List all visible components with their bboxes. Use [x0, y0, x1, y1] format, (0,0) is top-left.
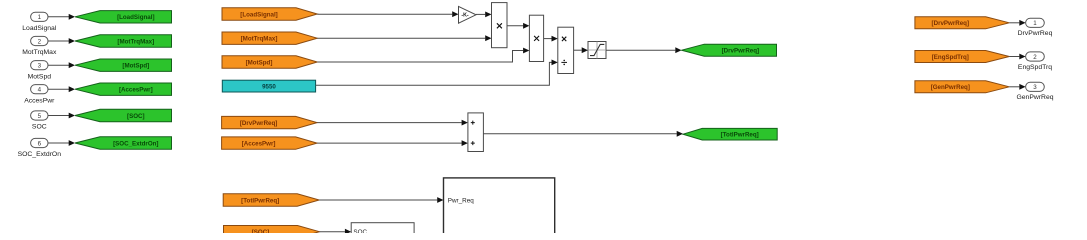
from [EngSpdTrq] right: [915, 51, 1009, 63]
svg-text:[MotTrqMax]: [MotTrqMax]: [117, 38, 154, 45]
from [DrvPwrReq] right: [915, 17, 1009, 29]
from [MotSpd]: [222, 56, 317, 68]
inport 4 AccesPwr: [24, 85, 55, 105]
svg-text:[LoadSignal]: [LoadSignal]: [240, 11, 277, 18]
wire to outport 2: [1009, 54, 1025, 60]
svg-text:3: 3: [1033, 84, 1037, 91]
wire [TotlPwrReq] to subsystem Pwr_Req: [319, 197, 443, 203]
svg-text:1: 1: [38, 14, 42, 21]
svg-text:[SOC_ExtdrOn]: [SOC_ExtdrOn]: [113, 140, 158, 147]
SOC lookup block: [351, 223, 414, 240]
from [LoadSignal]: [222, 8, 317, 20]
svg-text:MotTrqMax: MotTrqMax: [22, 49, 57, 56]
svg-text:SOC: SOC: [32, 124, 47, 131]
wire divide to saturation: [574, 47, 588, 53]
svg-text:5: 5: [38, 113, 42, 120]
inport 3 MotSpd: [28, 61, 52, 81]
svg-text:6: 6: [38, 140, 42, 147]
wire [MotTrqMax] to product P1: [317, 35, 491, 41]
outport 2 EngSpdTrq: [1018, 52, 1052, 71]
svg-text:1: 1: [1033, 20, 1037, 27]
goto [SOC_ExtdrOn]: [75, 137, 172, 149]
from [DrvPwrReq]: [222, 116, 318, 128]
goto [DrvPwrReq]: [682, 44, 777, 56]
wire to outport 1: [1009, 20, 1025, 26]
wire inport 2 to goto: [48, 38, 75, 44]
svg-text:[TotlPwrReq]: [TotlPwrReq]: [241, 197, 279, 204]
wire [MotSpd] to product P2: [317, 48, 529, 62]
wire [AccesPwr] to sum: [317, 140, 468, 146]
from [MotTrqMax]: [222, 32, 317, 44]
divide block: [558, 27, 574, 73]
wire product P2 to divide: [544, 36, 558, 42]
wire inport 1 to goto: [48, 14, 75, 20]
outport 3 GenPwrReq: [1016, 82, 1053, 101]
wire [LoadSignal] to gain K: [317, 11, 458, 17]
wire constant 9550 to divide: [316, 60, 558, 86]
from [AccesPwr]: [222, 137, 318, 149]
goto [AccesPwr]: [75, 83, 172, 95]
goto [MotTrqMax]: [75, 35, 172, 47]
from [GenPwrReq] right: [915, 81, 1009, 93]
svg-text:4: 4: [38, 87, 42, 94]
outport 1 DrvPwrReq: [1018, 18, 1053, 37]
goto [TotlPwrReq]: [683, 128, 777, 140]
svg-text:-K-: -K-: [461, 13, 469, 19]
svg-text:[MotTrqMax]: [MotTrqMax]: [241, 36, 278, 43]
svg-text:2: 2: [38, 38, 42, 45]
svg-text:EngSpdTrq: EngSpdTrq: [1018, 64, 1052, 71]
goto [SOC]: [75, 109, 172, 121]
wire to outport 3: [1009, 84, 1025, 90]
gain K1: [459, 6, 477, 23]
svg-text:[AccesPwr]: [AccesPwr]: [242, 141, 276, 148]
from [TotlPwrReq]: [223, 194, 319, 206]
svg-text:LoadSignal: LoadSignal: [22, 25, 57, 32]
inport 6 SOC_ExtdrOn: [18, 138, 62, 158]
goto [MotSpd]: [75, 59, 172, 71]
wire inport 6 to goto: [48, 140, 75, 146]
svg-text:[MotSpd]: [MotSpd]: [122, 63, 149, 70]
inport 1 LoadSignal: [22, 12, 57, 32]
svg-text:MotSpd: MotSpd: [28, 73, 52, 80]
goto [LoadSignal]: [75, 11, 172, 23]
svg-text:DrvPwrReq: DrvPwrReq: [1018, 30, 1053, 37]
svg-text:[SOC]: [SOC]: [252, 229, 270, 233]
svg-text:[DrvPwrReq]: [DrvPwrReq]: [722, 48, 759, 55]
sum block: [468, 113, 484, 152]
svg-text:AccesPwr: AccesPwr: [24, 97, 55, 104]
svg-text:[DrvPwrReq]: [DrvPwrReq]: [932, 20, 969, 27]
svg-text:Pwr_Req: Pwr_Req: [448, 198, 474, 205]
svg-text:[TotlPwrReq]: [TotlPwrReq]: [721, 132, 759, 139]
svg-text:SOC: SOC: [353, 229, 367, 233]
svg-text:SOC_ExtdrOn: SOC_ExtdrOn: [18, 151, 62, 158]
product P2: [529, 15, 543, 61]
svg-text:[MotSpd]: [MotSpd]: [246, 59, 273, 66]
wire saturation to goto [DrvPwrReq]: [606, 47, 682, 53]
wire inport 5 to goto: [48, 113, 75, 119]
from [SOC] bottom: [224, 226, 320, 238]
svg-text:[AccesPwr]: [AccesPwr]: [119, 87, 153, 94]
wire inport 3 to goto: [48, 62, 75, 68]
wire sum to goto [TotlPwrReq]: [483, 131, 683, 137]
wire gain to product P1: [476, 12, 492, 18]
wire [DrvPwrReq] to sum: [317, 120, 468, 126]
svg-text:2: 2: [1033, 54, 1037, 61]
saturation block: [588, 42, 606, 59]
wire [SOC] to SOC block: [320, 229, 352, 235]
product P1: [492, 3, 508, 48]
wire inport 4 to goto: [48, 86, 75, 92]
inport 2 MotTrqMax: [22, 36, 57, 56]
svg-text:GenPwrReq: GenPwrReq: [1016, 94, 1053, 101]
svg-text:9550: 9550: [262, 84, 276, 91]
svg-text:[EngSpdTrq]: [EngSpdTrq]: [932, 54, 969, 61]
svg-text:[DrvPwrReq]: [DrvPwrReq]: [240, 120, 277, 127]
svg-text:3: 3: [38, 63, 42, 70]
wire product P1 to product P2: [507, 23, 529, 29]
svg-text:[SOC]: [SOC]: [127, 113, 145, 120]
svg-text:[GenPwrReq]: [GenPwrReq]: [931, 84, 970, 91]
inport 5 SOC: [31, 111, 48, 131]
subsystem block: [444, 178, 555, 240]
svg-text:[LoadSignal]: [LoadSignal]: [117, 14, 154, 21]
constant 9550: [222, 80, 315, 92]
